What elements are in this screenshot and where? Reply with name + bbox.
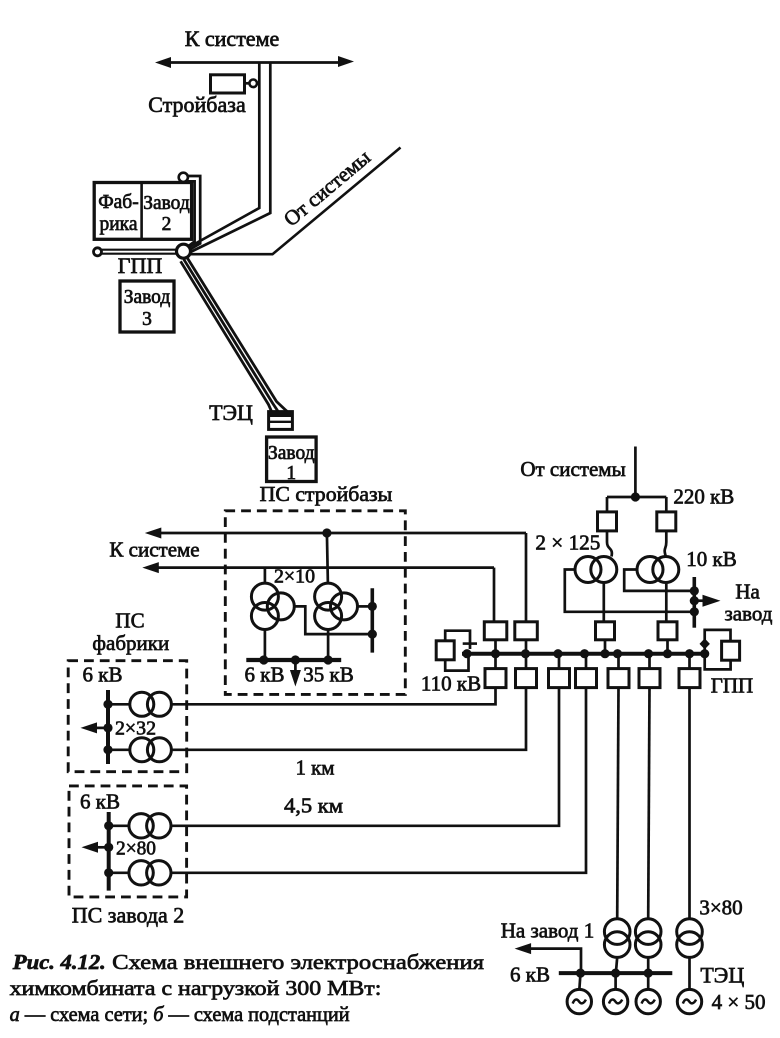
wire double line GPP left upper bbox=[102, 249, 177, 251]
wire T1 to bus bbox=[616, 957, 617, 971]
wire line 1 to GPP bbox=[187, 63, 260, 249]
wire breaker to T1 (curved) bbox=[607, 531, 612, 557]
wire T2 to bus bbox=[647, 957, 650, 971]
node junction 220kV bbox=[631, 492, 640, 501]
wire terminal to line bbox=[257, 82, 259, 85]
wire T1 secondary drop bbox=[602, 583, 605, 623]
wire line2 drop to breaker bbox=[493, 568, 496, 622]
svg-text:ПС: ПС bbox=[115, 609, 144, 633]
svg-text:К системе: К системе bbox=[109, 538, 199, 562]
wire bus to f2 bbox=[525, 655, 528, 669]
feeder breaker 1 bbox=[485, 669, 506, 688]
node dot arrow bbox=[103, 723, 112, 732]
wire right branch drop bbox=[665, 497, 668, 512]
svg-text:3: 3 bbox=[142, 309, 152, 330]
feeder breaker 5 bbox=[608, 669, 629, 688]
wire 220kV header bbox=[607, 496, 666, 499]
wire feeder4 to zavod2 row2 bbox=[171, 688, 586, 873]
node dot 10 bbox=[685, 649, 694, 658]
wire right bypass top loop bbox=[705, 630, 731, 654]
wire divider of box bbox=[140, 183, 143, 240]
box Фабрика / Завод 2 bbox=[94, 183, 191, 240]
svg-text:От системы: От системы bbox=[279, 145, 375, 231]
node dot 11 bbox=[700, 649, 709, 658]
transformer zavod2 row1 bbox=[129, 814, 171, 838]
svg-text:фабрики: фабрики bbox=[92, 631, 169, 655]
wire arrow stem bbox=[95, 727, 108, 730]
feeder breaker 3 bbox=[549, 669, 570, 688]
node dot row2 bbox=[104, 868, 113, 877]
node junction on line 1 bbox=[322, 528, 331, 537]
node dot g1 bbox=[576, 969, 585, 978]
bypass breaker left bbox=[436, 641, 454, 660]
svg-text:Схема внешнего электроснабжени: Схема внешнего электроснабжения bbox=[112, 950, 484, 974]
arrowhead left bbox=[82, 842, 99, 853]
bus 110 kV main bbox=[462, 652, 705, 656]
svg-text:2: 2 bbox=[162, 214, 172, 235]
node dot g2 bbox=[611, 969, 620, 978]
wire feeder1 to fabrika row1 bbox=[171, 688, 495, 705]
svg-text:1 км: 1 км bbox=[296, 756, 335, 780]
transformer zavod2 row2 bbox=[129, 861, 171, 885]
svg-text:От системы: От системы bbox=[520, 457, 625, 481]
wire T3 to G4 bbox=[688, 957, 691, 990]
node diamond on stub bbox=[700, 638, 710, 649]
transformer TEC T3 bbox=[677, 919, 703, 958]
svg-text:химкомбината с нагрузкой 300 М: химкомбината с нагрузкой 300 МВт: bbox=[10, 976, 382, 1000]
breaker bypass right bbox=[722, 641, 740, 660]
wire G2 lead bbox=[614, 973, 617, 990]
svg-text:К системе: К системе bbox=[185, 26, 280, 51]
bus 6/35 kV bottom bbox=[246, 658, 341, 662]
wire feeder3 to zavod2 row1 bbox=[171, 688, 559, 826]
node dot bus left bbox=[259, 655, 268, 664]
wire line1 drop to breaker bbox=[525, 533, 528, 622]
wire G3 lead bbox=[647, 973, 650, 990]
wire left branch drop bbox=[606, 497, 609, 512]
node dot row2 bbox=[103, 745, 112, 754]
breaker line2 bbox=[484, 622, 507, 640]
wire right bypass bottom loop bbox=[705, 655, 731, 669]
svg-text:2×32: 2×32 bbox=[115, 719, 156, 740]
box TEC plant bbox=[269, 412, 293, 430]
dashed box ПС фабрики bbox=[68, 661, 187, 772]
breaker line1 bbox=[515, 622, 538, 640]
wire bar to T row2 bbox=[109, 871, 129, 874]
wire T2 tertiary lead bbox=[358, 605, 369, 608]
node dot 3 bbox=[521, 649, 530, 658]
svg-text:1: 1 bbox=[286, 463, 296, 484]
svg-text:110 кВ: 110 кВ bbox=[421, 672, 481, 696]
generator G1 tilde bbox=[573, 1000, 586, 1004]
bus 6kV TEC bbox=[559, 971, 673, 975]
node dot on bar lower bbox=[368, 630, 377, 639]
wire feeder6 down to TEC T2 bbox=[648, 688, 649, 919]
generator G3 bbox=[636, 989, 660, 1013]
wire bar to T row2 bbox=[108, 748, 130, 751]
wire T2 secondary drop bbox=[665, 583, 668, 623]
wire bar to T row1 bbox=[108, 703, 130, 706]
wire to bus bbox=[494, 640, 497, 652]
breaker 220kV left bbox=[598, 512, 617, 531]
node dot 5 bbox=[580, 649, 589, 658]
wire G1 lead bbox=[579, 973, 580, 990]
generator G4 bbox=[677, 989, 701, 1013]
transformer TEC T1 bbox=[604, 919, 630, 958]
arrowhead left bbox=[515, 943, 532, 954]
node GPP circle bbox=[177, 244, 191, 258]
bus 6kV vertical bar bbox=[106, 690, 110, 764]
svg-text:Завод: Завод bbox=[143, 193, 190, 214]
node dot 6 bbox=[600, 649, 609, 658]
wire bus to f6 bbox=[648, 655, 651, 669]
svg-text:Завод: Завод bbox=[268, 443, 315, 464]
feeder breaker 7 bbox=[679, 669, 700, 688]
generator G1 bbox=[567, 989, 591, 1013]
node dot 7 bbox=[613, 649, 622, 658]
wire feeder2 to fabrika row2 bbox=[171, 688, 526, 750]
wire bar to T row1 bbox=[109, 824, 129, 827]
svg-text:На: На bbox=[735, 580, 760, 604]
wire line 2 to GPP bbox=[190, 63, 271, 253]
wire from system vertical bbox=[634, 447, 637, 498]
wire T1 top lead bbox=[264, 568, 267, 584]
svg-text:220 кВ: 220 кВ bbox=[673, 485, 734, 509]
bus 6kV vertical bar bbox=[107, 812, 111, 891]
arrowhead down bbox=[290, 670, 301, 687]
generator G3 tilde bbox=[642, 1000, 655, 1004]
wire triple line to TEC c bbox=[187, 257, 287, 411]
wire bus to f1 bbox=[494, 655, 497, 669]
wire T2 bottom lead bbox=[327, 630, 330, 659]
svg-text:6 кВ: 6 кВ bbox=[510, 963, 550, 987]
node dot on bar upper bbox=[368, 602, 377, 611]
wire disconnector bar bbox=[463, 642, 477, 645]
wire T1 breaker to bus bbox=[604, 640, 607, 652]
breaker 220kV right bbox=[657, 512, 676, 531]
node circle at Завод 2 corner bbox=[179, 173, 188, 182]
wire От системы diagonal bbox=[190, 148, 401, 255]
node dot 1 bbox=[462, 649, 471, 658]
wire bypass top loop bbox=[445, 631, 470, 649]
generator G2 tilde bbox=[609, 1000, 622, 1004]
wire stub box to terminal bbox=[245, 82, 250, 85]
box Завод 3 bbox=[120, 281, 174, 332]
transformer T2 three-winding bbox=[315, 583, 358, 629]
node dot arrow bbox=[104, 843, 113, 852]
node dot bus right bbox=[324, 655, 333, 664]
node dot bar mid bbox=[690, 596, 699, 605]
bus right bar bbox=[370, 588, 374, 652]
wire wrap outer bbox=[188, 176, 200, 250]
svg-text:рика: рика bbox=[99, 214, 137, 235]
wire T2 breaker to bus bbox=[666, 640, 669, 652]
wire T1 tertiary loop bbox=[565, 570, 691, 612]
svg-text:6 кВ: 6 кВ bbox=[245, 663, 285, 687]
wire 35kV line 1 bbox=[153, 532, 526, 535]
svg-text:2×80: 2×80 bbox=[116, 839, 156, 860]
arrowhead left bbox=[81, 722, 98, 733]
transformer T1 three-winding bbox=[251, 583, 294, 629]
node dot bus mid bbox=[291, 655, 300, 664]
svg-text:Фаб-: Фаб- bbox=[98, 192, 138, 213]
wire down arrow stem bbox=[294, 660, 297, 678]
node dot 4 bbox=[553, 649, 562, 658]
box Завод 1 bbox=[267, 437, 317, 482]
node dot 8 bbox=[644, 649, 653, 658]
feeder breaker 6 bbox=[639, 669, 660, 688]
svg-text:35 кВ: 35 кВ bbox=[303, 663, 353, 687]
wire triple line to TEC b bbox=[184, 259, 278, 411]
bus На завод bar bbox=[692, 577, 696, 628]
svg-text:6 кВ: 6 кВ bbox=[83, 663, 123, 687]
wire T1 bottom lead bbox=[264, 630, 267, 659]
transformer 125MVA T1 bbox=[575, 557, 617, 583]
svg-text:завод: завод bbox=[725, 602, 773, 626]
node dot bar 1 bbox=[690, 586, 699, 595]
feeder breaker 4 bbox=[576, 669, 597, 688]
svg-text:10 кВ: 10 кВ bbox=[686, 547, 736, 571]
transformer TEC T2 bbox=[635, 919, 661, 958]
arrowhead line 1 bbox=[145, 528, 162, 539]
svg-text:2×10: 2×10 bbox=[274, 567, 315, 588]
svg-text:ПС завода 2: ПС завода 2 bbox=[72, 903, 185, 928]
wire double-headed arrow К системе bbox=[163, 61, 346, 64]
svg-text:6 кВ: 6 кВ bbox=[80, 790, 120, 814]
svg-text:4 × 50: 4 × 50 bbox=[712, 990, 766, 1014]
svg-text:Завод: Завод bbox=[124, 287, 171, 308]
generator G2 bbox=[603, 989, 627, 1013]
wire 35kV line 2 bbox=[151, 566, 495, 569]
arrowhead right bbox=[338, 56, 354, 67]
node dot row1 bbox=[103, 700, 112, 709]
wire TEC box inner line bbox=[269, 421, 293, 423]
wire T1 tertiary lead bbox=[294, 606, 368, 634]
wire bus to f5 bbox=[617, 655, 620, 669]
wire double line GPP left lower bbox=[102, 253, 177, 255]
box TEC plant top band bbox=[269, 412, 293, 417]
wire bus to f3 bbox=[558, 655, 561, 669]
wire bypass bottom loop bbox=[445, 655, 468, 671]
box Стройбаза bbox=[211, 75, 245, 93]
wire breaker to T2 (curved) bbox=[665, 531, 667, 557]
wire T2 top lead bbox=[327, 533, 328, 584]
breaker T2 110kV bbox=[658, 622, 677, 640]
wire feeder7 down to TEC T3 bbox=[688, 688, 691, 919]
transformer fabrika row1 bbox=[130, 692, 172, 716]
transformer 125MVA T2 bbox=[637, 557, 679, 583]
node terminal circle left bbox=[94, 248, 102, 256]
wire arrow stem bbox=[96, 846, 109, 849]
svg-text:ГПП: ГПП bbox=[711, 674, 753, 698]
svg-text:ТЭЦ: ТЭЦ bbox=[209, 400, 253, 425]
svg-text:ГПП: ГПП bbox=[118, 253, 163, 278]
node dot bar 2 bbox=[690, 607, 699, 616]
svg-text:Стройбаза: Стройбаза bbox=[148, 92, 246, 117]
svg-text:3×80: 3×80 bbox=[699, 896, 742, 920]
arrowhead left bbox=[155, 57, 171, 68]
wire triple line to TEC a bbox=[181, 261, 272, 411]
node dot 2 bbox=[491, 649, 500, 658]
svg-text:Рис. 4.12.: Рис. 4.12. bbox=[12, 950, 106, 974]
node dot 9 bbox=[663, 649, 672, 658]
feeder breaker 2 bbox=[516, 669, 537, 688]
transformer fabrika row2 bbox=[130, 738, 172, 762]
wire arrow На завод 1 bbox=[523, 949, 581, 972]
generator G4 tilde bbox=[683, 1000, 696, 1004]
node dot row1 bbox=[104, 821, 113, 830]
svg-text:а — схема сети; б — схема подс: а — схема сети; б — схема подстанций bbox=[10, 1002, 350, 1026]
wire to bus bbox=[525, 640, 528, 652]
arrowhead line 2 bbox=[142, 562, 159, 573]
wire bus to f4 bbox=[585, 655, 588, 669]
svg-text:4,5 км: 4,5 км bbox=[284, 794, 343, 818]
wire arrow На завод bbox=[694, 599, 704, 602]
svg-text:ТЭЦ: ТЭЦ bbox=[700, 963, 744, 988]
wire wrap inner bbox=[186, 181, 195, 248]
breaker T1 110kV bbox=[596, 622, 615, 640]
svg-text:2 × 125: 2 × 125 bbox=[535, 531, 600, 555]
svg-text:ПС стройбазы: ПС стройбазы bbox=[260, 482, 393, 506]
dashed box ПС завода 2 bbox=[69, 786, 187, 897]
dashed box ПС стройбазы bbox=[225, 511, 405, 695]
arrowhead На завод bbox=[703, 595, 721, 607]
node dot g3 bbox=[644, 969, 653, 978]
wire feeder5 down to TEC T1 bbox=[617, 688, 618, 919]
wire T2 tertiary loop bbox=[624, 570, 690, 591]
node terminal circle at Стройбаза bbox=[249, 80, 257, 88]
svg-text:На завод 1: На завод 1 bbox=[501, 919, 594, 943]
wire bus to f7 bbox=[688, 655, 691, 669]
